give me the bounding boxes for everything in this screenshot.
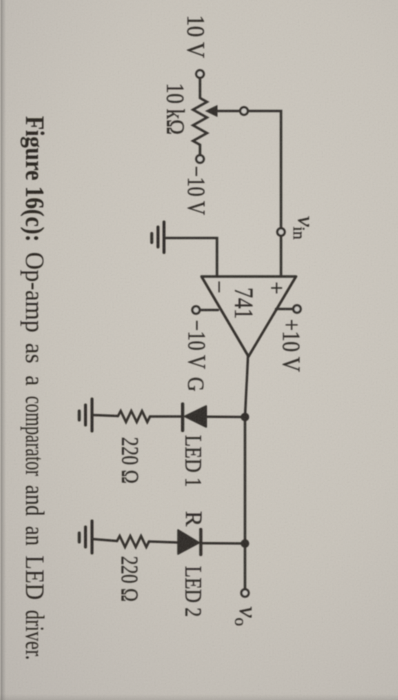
junction node LED1 [241, 413, 250, 422]
LED1 cathode bar [181, 404, 184, 431]
wire wiper to op-amp + input [248, 111, 281, 277]
label v_in [290, 216, 319, 240]
label 220 ohm (branch 2) [116, 556, 143, 602]
wire inverting input to ground [164, 238, 217, 277]
terminal +10 V supply [293, 305, 300, 312]
terminal v_in [277, 228, 284, 235]
LED2 diode (R) triangle [178, 530, 199, 554]
wire resistor R2 to ground [92, 539, 117, 541]
label -10 V (potentiometer) [182, 166, 211, 215]
wire LED2 to resistor R2 [149, 542, 178, 543]
label 220 ohm (branch 1) [116, 437, 143, 484]
terminal -10 V [196, 155, 204, 163]
LED2 cathode bar [199, 530, 202, 555]
wire negative supply stub [200, 309, 218, 311]
caption Figure 16(c) [20, 116, 50, 660]
label G [182, 377, 208, 392]
ground (branch 2) [79, 521, 92, 553]
label R [180, 511, 206, 527]
wire junction to LED2 [202, 542, 245, 545]
ground (branch 1) [79, 399, 92, 431]
terminal 10 V [196, 70, 204, 78]
op-amp + input label [264, 282, 289, 295]
resistor 220 ohm (branch 2) [117, 536, 149, 547]
wire junction to LED1 [206, 416, 245, 419]
terminal v_o [241, 589, 248, 596]
label +10 V [277, 319, 306, 372]
resistor 220 ohm (branch 1) [118, 411, 150, 422]
terminal -10 V supply [192, 306, 199, 313]
op-amp - input label [207, 281, 232, 294]
wire positive supply stub [276, 308, 293, 310]
label LED 2 [180, 566, 206, 617]
wiper terminal circle [240, 107, 248, 115]
label 10 V [182, 15, 211, 58]
LED1 diode (G) triangle [185, 406, 207, 427]
wire resistor R1 to ground [92, 415, 118, 416]
wire op-amp output [245, 356, 248, 417]
potentiometer wiper arrow [205, 105, 240, 117]
potentiometer 10 kohm body [193, 78, 207, 155]
op-amp U1 triangle [202, 277, 297, 357]
wire LED1 to resistor R1 [150, 415, 181, 417]
op-amp label 741 [229, 288, 259, 320]
label -10 V (supply) [183, 320, 212, 369]
label v_o [231, 607, 261, 627]
junction node LED2 [241, 539, 250, 548]
label 10 kohm [161, 83, 190, 135]
label LED 1 [180, 435, 206, 487]
ground (inverting input) [152, 222, 164, 253]
